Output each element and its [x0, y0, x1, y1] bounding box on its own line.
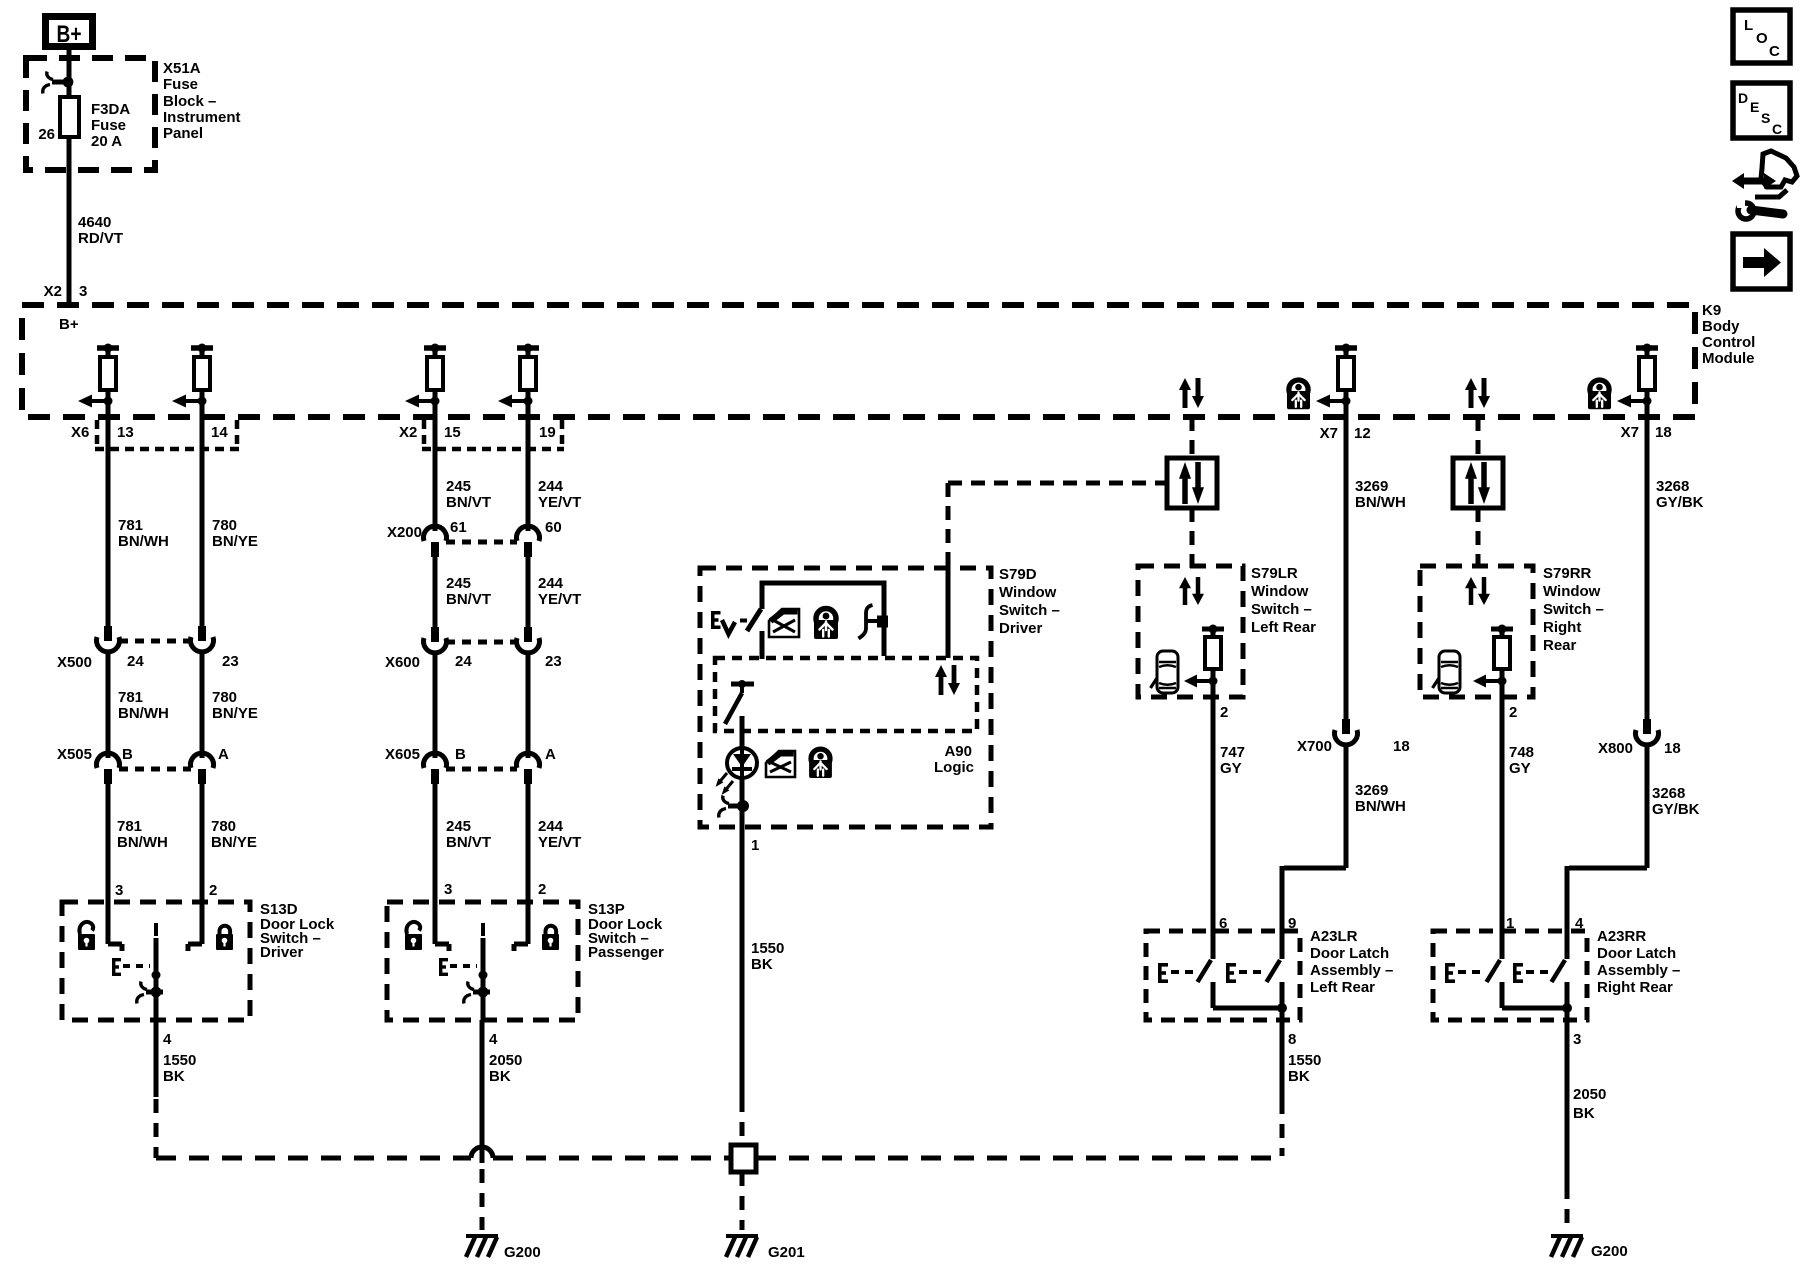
- svg-text:Body: Body: [1702, 318, 1740, 335]
- svg-text:Assembly –: Assembly –: [1310, 962, 1393, 979]
- svg-text:BN/VT: BN/VT: [446, 834, 491, 851]
- svg-text:Fuse: Fuse: [91, 117, 126, 134]
- svg-text:X7: X7: [1320, 425, 1338, 442]
- svg-text:Module: Module: [1702, 350, 1755, 367]
- svg-text:2: 2: [1220, 704, 1228, 721]
- svg-text:X500: X500: [57, 654, 92, 671]
- svg-text:Switch –: Switch –: [999, 602, 1060, 619]
- svg-text:GY/BK: GY/BK: [1652, 801, 1700, 818]
- svg-text:4: 4: [1575, 915, 1584, 932]
- svg-text:A: A: [218, 746, 229, 763]
- svg-text:E: E: [1750, 99, 1759, 115]
- svg-text:Left Rear: Left Rear: [1251, 619, 1316, 636]
- svg-text:9: 9: [1288, 915, 1296, 932]
- svg-text:26: 26: [38, 126, 55, 143]
- svg-text:4: 4: [489, 1031, 498, 1048]
- svg-text:YE/VT: YE/VT: [538, 834, 581, 851]
- svg-text:2: 2: [538, 881, 546, 898]
- svg-text:2050: 2050: [1573, 1086, 1606, 1103]
- svg-text:S: S: [1761, 110, 1770, 126]
- svg-text:K9: K9: [1702, 302, 1721, 319]
- svg-text:3: 3: [115, 882, 123, 899]
- svg-text:60: 60: [545, 519, 562, 536]
- svg-text:A: A: [545, 746, 556, 763]
- svg-text:244: 244: [538, 478, 564, 495]
- svg-text:3: 3: [444, 881, 452, 898]
- svg-text:24: 24: [455, 653, 472, 670]
- svg-text:3268: 3268: [1656, 478, 1689, 495]
- svg-text:Assembly –: Assembly –: [1597, 962, 1680, 979]
- svg-text:Switch –: Switch –: [1543, 601, 1604, 618]
- svg-text:18: 18: [1664, 740, 1681, 757]
- svg-text:8: 8: [1288, 1031, 1296, 1048]
- svg-text:YE/VT: YE/VT: [538, 591, 581, 608]
- svg-text:BN/YE: BN/YE: [212, 533, 258, 550]
- svg-text:780: 780: [211, 818, 236, 835]
- svg-text:G201: G201: [768, 1244, 805, 1261]
- svg-text:G200: G200: [1591, 1243, 1628, 1260]
- svg-text:BN/WH: BN/WH: [117, 834, 168, 851]
- svg-text:BN/VT: BN/VT: [446, 494, 491, 511]
- svg-text:BK: BK: [751, 956, 773, 973]
- svg-text:1: 1: [751, 837, 759, 854]
- svg-text:C: C: [1772, 121, 1782, 137]
- svg-text:G200: G200: [504, 1244, 541, 1261]
- svg-text:YE/VT: YE/VT: [538, 494, 581, 511]
- svg-text:BN/WH: BN/WH: [1355, 494, 1406, 511]
- svg-text:Block –: Block –: [163, 93, 216, 110]
- svg-text:4: 4: [163, 1031, 172, 1048]
- svg-text:X505: X505: [57, 746, 92, 763]
- svg-text:Rear: Rear: [1543, 637, 1577, 654]
- svg-text:Driver: Driver: [999, 620, 1043, 637]
- svg-text:4640: 4640: [78, 214, 111, 231]
- svg-text:12: 12: [1354, 425, 1371, 442]
- svg-text:X2: X2: [44, 283, 62, 300]
- svg-text:BN/VT: BN/VT: [446, 591, 491, 608]
- svg-text:X7: X7: [1621, 424, 1639, 441]
- svg-text:GY/BK: GY/BK: [1656, 494, 1704, 511]
- svg-text:GY: GY: [1509, 760, 1531, 777]
- svg-text:245: 245: [446, 575, 471, 592]
- svg-text:X6: X6: [71, 424, 89, 441]
- svg-text:BK: BK: [489, 1068, 511, 1085]
- svg-text:18: 18: [1655, 424, 1672, 441]
- svg-text:Driver: Driver: [260, 944, 304, 961]
- svg-text:S79RR: S79RR: [1543, 565, 1592, 582]
- svg-text:748: 748: [1509, 744, 1534, 761]
- svg-text:23: 23: [222, 653, 239, 670]
- svg-text:244: 244: [538, 818, 564, 835]
- svg-text:X600: X600: [385, 654, 420, 671]
- svg-text:BK: BK: [1573, 1105, 1595, 1122]
- svg-text:O: O: [1756, 30, 1768, 47]
- svg-text:B+: B+: [59, 316, 79, 333]
- svg-text:Door Latch: Door Latch: [1597, 945, 1676, 962]
- svg-text:2: 2: [1509, 704, 1517, 721]
- svg-text:BN/WH: BN/WH: [118, 533, 169, 550]
- svg-text:X700: X700: [1297, 738, 1332, 755]
- svg-text:X2: X2: [399, 424, 417, 441]
- svg-text:1550: 1550: [1288, 1052, 1321, 1069]
- svg-text:X605: X605: [385, 746, 420, 763]
- svg-text:BN/WH: BN/WH: [1355, 798, 1406, 815]
- svg-text:19: 19: [539, 424, 556, 441]
- svg-text:6: 6: [1219, 915, 1227, 932]
- svg-text:244: 244: [538, 575, 564, 592]
- svg-text:14: 14: [211, 424, 228, 441]
- svg-text:Switch –: Switch –: [1251, 601, 1312, 618]
- svg-text:Panel: Panel: [163, 125, 203, 142]
- svg-text:781: 781: [118, 517, 143, 534]
- svg-text:20 A: 20 A: [91, 133, 122, 150]
- svg-text:S79LR: S79LR: [1251, 565, 1298, 582]
- svg-text:2: 2: [209, 882, 217, 899]
- svg-text:23: 23: [545, 653, 562, 670]
- svg-text:GY: GY: [1220, 760, 1242, 777]
- svg-text:A90: A90: [944, 743, 972, 760]
- svg-text:780: 780: [212, 689, 237, 706]
- svg-text:Left Rear: Left Rear: [1310, 979, 1375, 996]
- svg-text:780: 780: [212, 517, 237, 534]
- svg-text:B: B: [455, 746, 466, 763]
- svg-text:Window: Window: [1251, 583, 1309, 600]
- svg-text:Control: Control: [1702, 334, 1755, 351]
- svg-text:Instrument: Instrument: [163, 109, 241, 126]
- svg-text:Door Latch: Door Latch: [1310, 945, 1389, 962]
- svg-text:Logic: Logic: [934, 759, 974, 776]
- svg-text:13: 13: [117, 424, 134, 441]
- svg-text:2050: 2050: [489, 1052, 522, 1069]
- svg-text:1: 1: [1506, 915, 1514, 932]
- svg-text:3268: 3268: [1652, 785, 1685, 802]
- svg-text:S79D: S79D: [999, 566, 1037, 583]
- svg-text:15: 15: [444, 424, 461, 441]
- svg-text:L: L: [1744, 17, 1753, 34]
- svg-text:Fuse: Fuse: [163, 76, 198, 93]
- svg-text:BK: BK: [163, 1068, 185, 1085]
- svg-text:X51A: X51A: [163, 60, 201, 77]
- svg-text:X800: X800: [1598, 740, 1633, 757]
- svg-text:BN/YE: BN/YE: [212, 705, 258, 722]
- svg-text:X200: X200: [387, 524, 422, 541]
- svg-text:24: 24: [127, 653, 144, 670]
- svg-text:1550: 1550: [751, 940, 784, 957]
- svg-text:Right: Right: [1543, 619, 1581, 636]
- svg-text:A23LR: A23LR: [1310, 928, 1358, 945]
- svg-text:C: C: [1769, 43, 1780, 60]
- svg-text:747: 747: [1220, 744, 1245, 761]
- svg-text:18: 18: [1393, 738, 1410, 755]
- svg-text:3: 3: [1573, 1031, 1581, 1048]
- svg-text:1550: 1550: [163, 1052, 196, 1069]
- svg-text:BN/WH: BN/WH: [118, 705, 169, 722]
- svg-text:3: 3: [79, 283, 87, 300]
- svg-text:D: D: [1738, 90, 1748, 106]
- svg-text:245: 245: [446, 818, 471, 835]
- svg-text:3269: 3269: [1355, 478, 1388, 495]
- svg-text:781: 781: [117, 818, 142, 835]
- svg-text:A23RR: A23RR: [1597, 928, 1646, 945]
- svg-text:BK: BK: [1288, 1068, 1310, 1085]
- svg-text:Passenger: Passenger: [588, 944, 664, 961]
- svg-text:RD/VT: RD/VT: [78, 230, 123, 247]
- svg-text:B: B: [122, 746, 133, 763]
- svg-text:Right Rear: Right Rear: [1597, 979, 1673, 996]
- svg-text:F3DA: F3DA: [91, 101, 130, 118]
- svg-text:3269: 3269: [1355, 782, 1388, 799]
- svg-text:B+: B+: [57, 21, 82, 48]
- svg-text:Window: Window: [1543, 583, 1601, 600]
- svg-text:245: 245: [446, 478, 471, 495]
- svg-text:61: 61: [450, 519, 467, 536]
- svg-text:781: 781: [118, 689, 143, 706]
- svg-text:BN/YE: BN/YE: [211, 834, 257, 851]
- svg-text:Window: Window: [999, 584, 1057, 601]
